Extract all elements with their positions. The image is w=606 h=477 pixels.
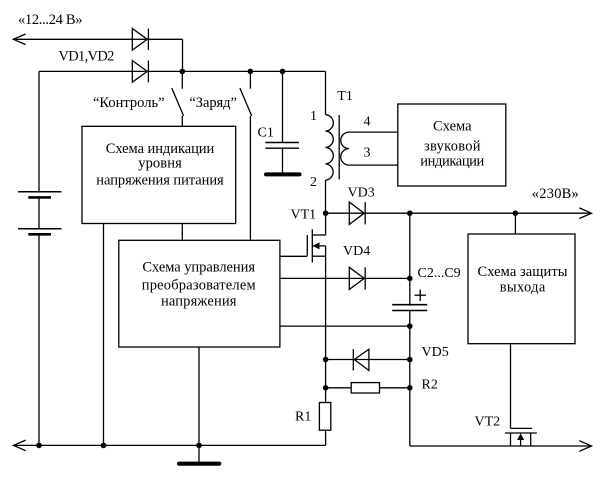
wire bus left down to battery — [38, 71, 40, 191]
junction ground bus / indication box — [101, 443, 107, 449]
left arrow input — [13, 34, 25, 45]
wire ground bus (left) — [14, 444, 326, 446]
junction ground bus / battery — [36, 443, 42, 449]
diode VD1 — [132, 29, 148, 51]
junction 230V rail / protection box — [513, 210, 519, 216]
svg-text:Схема управления: Схема управления — [142, 260, 255, 276]
wire control box to VD4 anode — [280, 277, 410, 279]
svg-text:звуковой: звуковой — [424, 138, 481, 154]
capacitor C1 — [265, 143, 299, 149]
wire VT1 source down through VD5/R2 nodes to R1 — [325, 256, 327, 402]
wire control box to C2..C9 minus node — [280, 325, 410, 327]
wire pin 4 to sound box — [349, 131, 398, 133]
box: Схема защиты выхода — [468, 234, 575, 344]
svg-text:уровня: уровня — [138, 156, 182, 172]
svg-text:VT1: VT1 — [291, 207, 317, 222]
svg-text:R2: R2 — [422, 377, 438, 392]
wire R1 bottom to ground bus — [325, 430, 327, 445]
wire T1 pin2 down to node A — [325, 180, 327, 213]
box: Схема звуковой индикации — [398, 104, 506, 186]
capacitor C2...C9 polarity + — [415, 290, 427, 302]
wire Заряд switch down to control box — [249, 116, 251, 240]
junction bus/C1 — [280, 69, 286, 75]
diode VD2 — [132, 61, 148, 83]
junction 230V rail / C2..C9 — [407, 210, 413, 216]
switch SA2 Заряд — [240, 71, 252, 116]
svg-text:VD1,VD2: VD1,VD2 — [58, 49, 114, 65]
junction VD5 left — [323, 357, 329, 363]
box: Схема управления преобразователем напряжения — [119, 240, 280, 347]
wire 230V rail down to protection box — [514, 213, 516, 234]
wire control box bottom to ground bus — [198, 347, 200, 445]
svg-text:VD3: VD3 — [348, 185, 375, 200]
svg-text:C1: C1 — [258, 125, 274, 140]
junction node A (T1 pin2 / VT1 drain / VD3) — [323, 210, 329, 216]
capacitor C2...C9 — [392, 305, 427, 311]
wire indication box bottom to control box — [181, 224, 183, 241]
right arrow output rail — [579, 441, 591, 452]
svg-text:VD5: VD5 — [422, 345, 449, 360]
svg-text:индикации: индикации — [420, 154, 484, 170]
junction bus/VD switches — [180, 69, 186, 75]
wire 230V output rail — [326, 212, 592, 214]
svg-text:VD4: VD4 — [343, 244, 370, 259]
ground bar under C1 — [266, 172, 300, 176]
transformer T1 primary winding — [326, 115, 334, 181]
svg-text:T1: T1 — [337, 89, 353, 104]
wire indication box bottom-left down to ground bus — [103, 224, 105, 446]
diode VD4 — [349, 267, 365, 289]
wire output rail bottom — [410, 445, 592, 447]
transistor VT1 (n-channel MOSFET) — [307, 213, 325, 262]
transistor VT2 (n-channel MOSFET) — [505, 428, 537, 446]
wire VD5 row — [326, 359, 410, 361]
wire battery minus down to ground bus — [38, 234, 40, 445]
right arrow 230V output — [579, 208, 591, 219]
junction VD4 cathode / C2..C9 plus — [407, 276, 413, 282]
resistor R1 — [319, 403, 330, 431]
transformer T1 core — [338, 115, 340, 179]
wire bus to C1 — [282, 71, 284, 142]
wire R2 row — [326, 387, 410, 389]
wire VD1 cathode down to bus — [182, 39, 184, 71]
wire input rail to VD1 — [13, 38, 183, 40]
svg-text:выхода: выхода — [500, 280, 546, 296]
svg-text:“Контроль”: “Контроль” — [93, 95, 165, 111]
junction R2 left — [323, 385, 329, 391]
switch SA1 Контроль — [172, 71, 184, 126]
svg-text:4: 4 — [364, 115, 371, 130]
svg-text:“Заряд”: “Заряд” — [189, 95, 237, 111]
diode VD3 — [349, 202, 365, 224]
svg-text:2: 2 — [310, 175, 317, 190]
wire bus corner down to T1 primary — [325, 71, 327, 114]
junction VD5 right — [407, 357, 413, 363]
transformer T1 secondary winding — [341, 132, 349, 165]
junction ground bus / control box / ground — [196, 443, 202, 449]
svg-text:преобразователем: преобразователем — [142, 278, 256, 294]
wire top bus — [39, 70, 326, 72]
svg-text:VT2: VT2 — [475, 415, 501, 430]
svg-text:«12...24 В»: «12...24 В» — [18, 12, 83, 28]
junction R2 right — [407, 385, 413, 391]
svg-text:Схема защиты: Схема защиты — [478, 264, 568, 280]
left arrow ground bus — [14, 440, 26, 451]
junction C minus / control stub — [407, 323, 413, 329]
ground symbol — [179, 445, 219, 463]
svg-text:«230В»: «230В» — [532, 186, 579, 202]
wire C2..C9 column from 230V rail — [409, 213, 411, 305]
battery GB1 — [18, 192, 62, 235]
junction bus/Заряд — [248, 69, 254, 75]
wire control box to VT1 gate — [280, 255, 307, 257]
wire pin 3 to sound box — [349, 164, 398, 166]
svg-text:3: 3 — [364, 146, 371, 161]
svg-text:1: 1 — [310, 109, 317, 124]
svg-text:напряжения: напряжения — [161, 294, 237, 310]
wire C1 to ground bar — [282, 148, 284, 173]
box: Схема индикации уровня напряжения питания — [82, 126, 236, 223]
wire C2..C9 minus down — [409, 311, 411, 447]
svg-text:C2...C9: C2...C9 — [418, 266, 461, 281]
wire protection box to VT2 gate — [510, 344, 512, 429]
resistor R2 — [351, 383, 379, 393]
svg-text:напряжения питания: напряжения питания — [96, 173, 224, 189]
svg-text:R1: R1 — [295, 410, 311, 425]
svg-text:Схема: Схема — [433, 119, 472, 135]
diode VD5 — [353, 349, 369, 370]
